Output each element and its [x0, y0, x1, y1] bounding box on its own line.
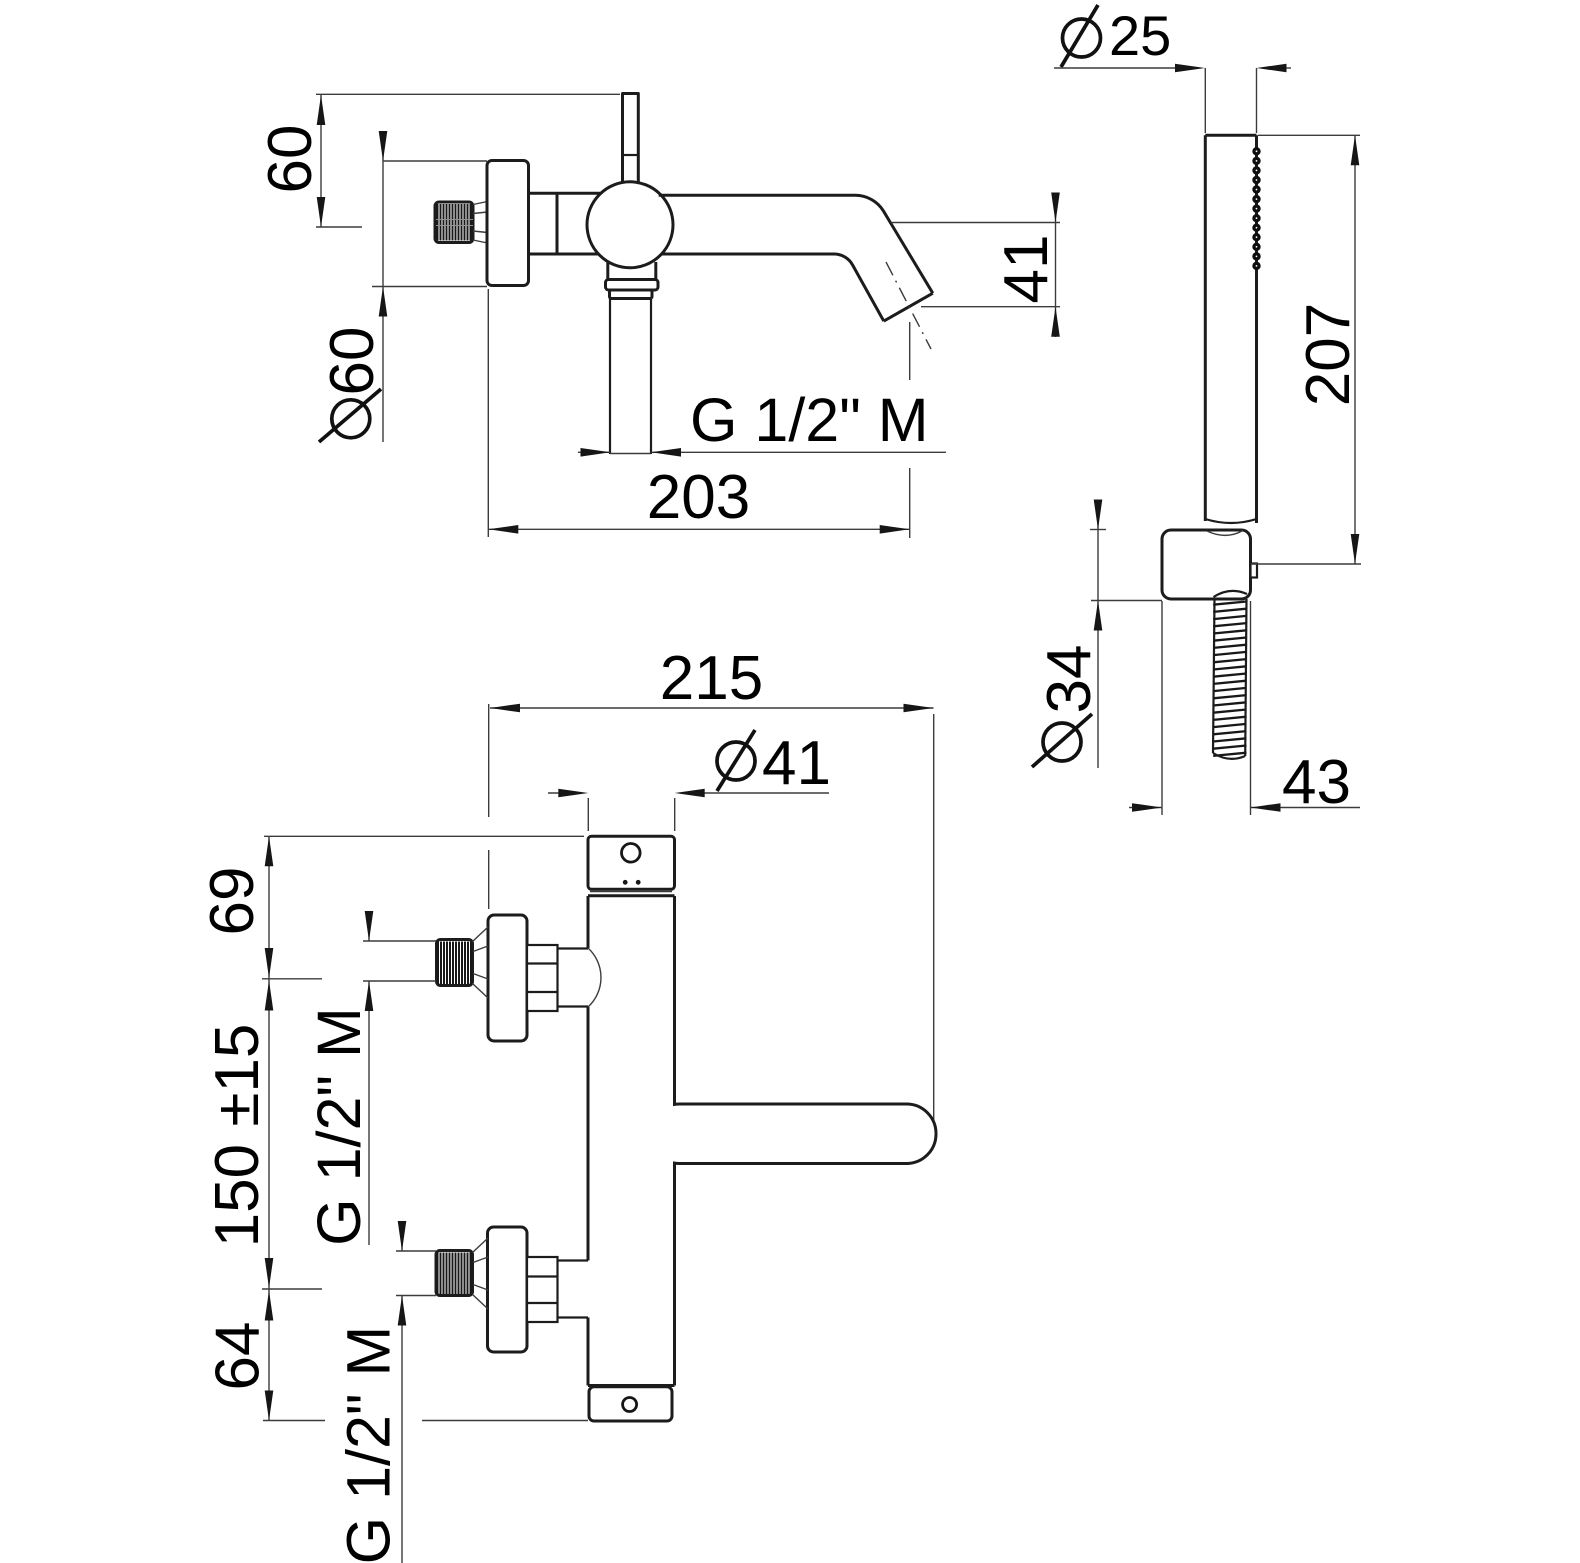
chain arrow down 150: [265, 1258, 274, 1288]
chain arrow up 64: [265, 1291, 274, 1321]
holder clip nub: [1251, 564, 1258, 578]
dimension G1/2 lower vertical line: [401, 1222, 403, 1563]
lower thread nipple: [436, 1251, 473, 1296]
neck below valve left edge: [606, 262, 609, 280]
top cap: [588, 836, 675, 889]
svg-text:207: 207: [1294, 303, 1363, 406]
lower stub bottom line: [558, 1316, 589, 1318]
lower cone: [473, 1238, 489, 1309]
dimension 207 arrow up: [1351, 135, 1360, 165]
dimension 60 bottom tick: [316, 226, 362, 228]
chain dim extension bottom left part: [263, 1420, 325, 1422]
upper hex nut: [527, 945, 558, 1011]
mixer body fill: [590, 897, 674, 1385]
extension line top of wall plate (dim D60): [383, 160, 487, 162]
handle lever joint line: [623, 154, 639, 156]
svg-text:G 1/2" M: G 1/2" M: [305, 1007, 373, 1246]
upper cone: [473, 927, 489, 998]
mixer body right edge upper: [673, 896, 676, 1104]
label D41 diameter symbol circle: [717, 742, 755, 780]
label D41 diameter symbol slash: [717, 730, 755, 791]
hose bottom cap: [1213, 753, 1245, 759]
dimension 60 arrow up: [317, 95, 326, 125]
upper stub top line: [558, 947, 589, 949]
dimension 207 bottom extension line: [1251, 563, 1361, 565]
dimension 207 top extension line: [1258, 134, 1360, 136]
dimension 215 right extension line: [933, 714, 935, 1122]
label D25 diameter symbol slash: [1061, 5, 1098, 67]
mixer body left edge upper: [587, 896, 590, 948]
top cap dots: [623, 880, 628, 885]
lower hex nut: [527, 1257, 558, 1322]
dimension D34 vertical line: [1097, 500, 1099, 768]
chain arrow up 69: [265, 836, 274, 866]
svg-text:34: 34: [1035, 645, 1104, 714]
wall plate escutcheon: [487, 161, 529, 286]
dimension 203 arrow right: [880, 525, 910, 534]
dimension G1/2 lower extension top: [396, 1250, 436, 1252]
label D60 diameter symbol circle: [332, 400, 370, 438]
dimension 41 arrow up: [1051, 307, 1060, 337]
dimension D34 arrow up: [1094, 601, 1103, 631]
valve body circle: [587, 182, 673, 268]
holder saddle arc: [1207, 531, 1243, 536]
dimension 43 right extension line: [1250, 601, 1252, 815]
handshower bottom dip line: [1205, 519, 1256, 523]
thread nipple (side view inlet knob): [435, 202, 473, 243]
hose top bulge: [1214, 591, 1248, 597]
mixer body right edge lower: [673, 1164, 676, 1386]
handshower cylinder right edge: [1255, 135, 1258, 523]
dimension 215 arrow right: [904, 704, 934, 713]
dimension 215 arrow left: [490, 704, 520, 713]
spout bottom edge: [662, 254, 884, 321]
dimension D60 arrow up: [379, 287, 388, 317]
shower holder block: [1162, 530, 1251, 599]
dimension 60 arrow down: [317, 197, 326, 227]
mixer body left edge middle: [587, 1007, 590, 1261]
spout tip face: [884, 293, 933, 321]
svg-text:41: 41: [992, 235, 1061, 304]
lower hex facet lines: [527, 1277, 558, 1304]
neck below valve right edge: [654, 262, 657, 280]
body tube joint line: [556, 193, 559, 254]
svg-text:25: 25: [1109, 4, 1171, 67]
bottom cap: [589, 1387, 672, 1421]
spout axis dashed line: [886, 262, 931, 349]
extension line bottom of wall plate (dim D60): [372, 286, 487, 288]
dimension D34 bottom extension line: [1091, 600, 1162, 602]
dimension 43 left extension line: [1161, 601, 1163, 815]
mixer body top edge: [588, 894, 675, 897]
svg-text:203: 203: [647, 463, 750, 532]
svg-text:60: 60: [318, 327, 387, 396]
mixer body bottom edge: [588, 1384, 675, 1387]
dimension D34 arrow down: [1094, 500, 1103, 530]
dimension 215 left extension line: [488, 704, 490, 909]
handshower spray nozzles dots: [1254, 149, 1259, 269]
svg-text:43: 43: [1282, 748, 1351, 817]
label D34 diameter symbol slash: [1032, 714, 1092, 767]
chain dimension vertical line: [268, 836, 270, 1420]
svg-text:G 1/2" M: G 1/2" M: [690, 386, 929, 454]
handshower cylinder top edge: [1205, 134, 1256, 137]
chain dim tick 150/64: [262, 1288, 322, 1290]
dimension 207 arrow down: [1351, 534, 1360, 564]
chain arrow down 64: [265, 1391, 274, 1421]
dimension 41 top extension line: [891, 222, 1060, 224]
upper flange escutcheon: [488, 915, 527, 1041]
dimension D41 left extension line: [587, 798, 589, 831]
inlet pipe left edge: [609, 299, 611, 455]
upper dome arc: [588, 948, 601, 1007]
upper stub bottom line: [558, 1005, 589, 1007]
thread nipple inner lines: [436, 220, 473, 226]
upper nipple hatching: [438, 942, 471, 985]
handle lever: [623, 94, 639, 185]
chain dim tick 69/150: [262, 978, 322, 980]
body tube bottom edge: [529, 253, 599, 256]
dimension 41 arrow down: [1051, 193, 1060, 223]
lower nipple hatching: [438, 1253, 471, 1295]
lower stub top line: [558, 1259, 589, 1261]
svg-text:G 1/2" M: G 1/2" M: [335, 1326, 403, 1563]
dimension 41 bottom extension line: [921, 306, 1060, 308]
handshower cylinder left edge: [1204, 135, 1207, 521]
dimension 203 left extension line: [487, 289, 489, 537]
body tube top edge: [529, 192, 602, 195]
dimension G1/2 upper extension top: [363, 940, 436, 942]
spout top edge: [659, 195, 933, 293]
label D34 diameter symbol circle: [1043, 723, 1081, 761]
inlet pipe bottom edge: [610, 453, 651, 455]
svg-text:60: 60: [256, 125, 325, 194]
upper thread nipple: [437, 940, 473, 986]
joint band line: [590, 891, 672, 893]
dimension D25 line right part: [1283, 67, 1291, 69]
dimension G1/2 lower arrow down: [398, 1221, 407, 1251]
dimension D41 line left part: [548, 792, 578, 794]
chain arrow up 150: [265, 981, 274, 1011]
dimension D60 vertical line: [382, 135, 384, 442]
dimension D34 top tick: [1090, 529, 1106, 531]
dimension 203 arrow left: [488, 525, 518, 534]
chain arrow down 69: [265, 948, 274, 978]
label D60 diameter symbol slash: [319, 389, 381, 442]
dimension D60 arrow down: [379, 131, 388, 161]
dimension G1/2 upper vertical line: [368, 911, 370, 1245]
svg-text:64: 64: [204, 1322, 273, 1391]
upper hex facet lines: [527, 964, 558, 993]
chain dim extension top (69): [264, 835, 584, 837]
dimension 215 line: [490, 707, 934, 709]
svg-text:69: 69: [198, 867, 267, 936]
dimension D41 right extension line: [674, 798, 676, 831]
collar ring lower: [610, 290, 653, 299]
collar ring upper: [606, 280, 659, 291]
dimension D25 line left part: [1054, 67, 1180, 69]
bottom cap hole: [623, 1398, 637, 1412]
dimension G1/2 line with arrows (spout view): [578, 451, 610, 453]
hose left edge: [1213, 599, 1215, 753]
wire: extension line top of lever (dim 60): [316, 93, 620, 95]
dimension 203 line: [488, 528, 909, 530]
extension line right of handshower: [1256, 68, 1258, 133]
dimension 43 line right part: [1251, 807, 1361, 809]
lower flange escutcheon: [488, 1227, 528, 1352]
dimension G1/2 upper arrow up: [365, 981, 374, 1011]
dimension 43 line left part: [1129, 807, 1162, 809]
svg-text:150 ±15: 150 ±15: [203, 1024, 272, 1248]
dimension 207 vertical line: [1354, 135, 1356, 564]
handle bar: [650, 1104, 936, 1164]
label D25 diameter symbol circle: [1063, 19, 1101, 57]
dimension G1/2 upper arrow down: [365, 911, 374, 941]
mixer body left edge lower: [587, 1318, 590, 1386]
dimension G1/2 upper extension bottom: [363, 980, 436, 982]
hose ribs: [1213, 602, 1246, 756]
dimension 41 vertical line: [1055, 195, 1057, 337]
dimension 203 right extension line: [909, 322, 911, 538]
hose right edge: [1245, 599, 1246, 756]
dimension D41 line right part: [704, 792, 829, 794]
dimension G1/2 lower extension bottom: [396, 1295, 436, 1297]
chain dim extension bottom right part: [422, 1420, 588, 1422]
inlet pipe right edge: [650, 299, 652, 455]
dimension G1/2 lower arrow up: [398, 1296, 407, 1326]
top cap hole: [622, 844, 641, 863]
thread nipple hatching: [438, 204, 471, 241]
svg-text:215: 215: [660, 644, 763, 713]
dimension 60 vertical line: [320, 95, 322, 227]
extension line left of handshower: [1204, 68, 1206, 133]
cone between nipple and plate: [473, 202, 488, 244]
svg-text:41: 41: [762, 729, 831, 798]
